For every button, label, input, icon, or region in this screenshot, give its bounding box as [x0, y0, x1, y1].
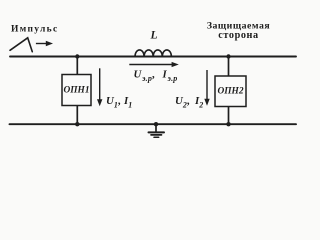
surge arrester ОПН1: [62, 75, 91, 106]
arrow U1 I1 (down): [97, 68, 102, 106]
node junction ground: [154, 122, 158, 126]
arrow impulse direction: [36, 41, 53, 47]
inductor L coil: [135, 50, 171, 57]
wire vertical left lower (ОПН1 to bottom bus): [76, 106, 78, 125]
arrow U2 I2 (down): [204, 70, 209, 106]
arrow U_er I_er: [129, 62, 179, 67]
node junction bottom-right: [226, 122, 230, 126]
surge arrester ОПН2: [215, 76, 246, 107]
wire vertical left upper (node to ОПН1): [76, 57, 78, 75]
svg-text:сторона: сторона: [218, 30, 258, 41]
node junction top-left: [75, 54, 79, 58]
node junction top-right: [226, 54, 230, 58]
wire vertical right upper (node to ОПН2): [228, 57, 230, 77]
svg-text:ОПН2: ОПН2: [217, 87, 243, 97]
svg-text:ОПН1: ОПН1: [63, 85, 89, 95]
wire top bus: [10, 56, 296, 58]
wire bottom bus: [10, 123, 297, 125]
ground bar 1: [149, 131, 165, 133]
ground stub: [155, 124, 157, 131]
node junction bottom-left: [75, 122, 79, 126]
wire vertical right lower (ОПН2 to bottom bus): [228, 107, 230, 125]
impulse waveform symbol: [10, 38, 32, 52]
ground bar 2: [151, 134, 162, 136]
svg-text:L: L: [150, 30, 158, 42]
svg-text:Импульс: Импульс: [11, 25, 59, 35]
ground bar 3: [154, 136, 159, 138]
